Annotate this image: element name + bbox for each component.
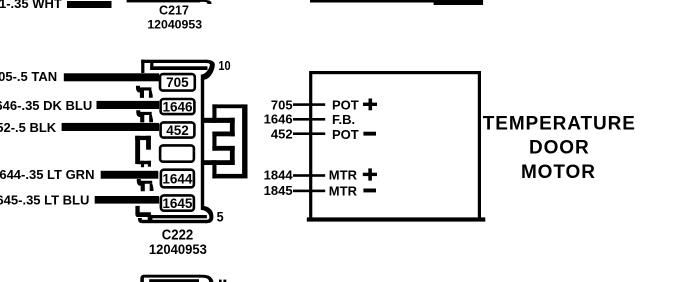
pin 10 label (bottom connector, partial) bbox=[219, 280, 226, 282]
wire 1645-.35 LT BLU (bar) bbox=[95, 196, 159, 204]
wire 452-.5 BLK (bar) bbox=[62, 123, 160, 131]
svg-text:1844: 1844 bbox=[264, 168, 294, 183]
terminal 1644 (cavity box) bbox=[161, 170, 194, 188]
terminal 705 (cavity box) bbox=[160, 74, 195, 91]
pin 705 stub line bbox=[293, 103, 325, 106]
pin 1844 plus sign bbox=[363, 168, 377, 180]
terminal 1646 (cavity box) bbox=[161, 99, 195, 114]
connector C222 left-edge notch (between 1646 and 452) bbox=[136, 110, 153, 122]
svg-text:F.B.: F.B. bbox=[332, 112, 355, 127]
connector C222 left-edge hook (below 1645, bottom left corner) bbox=[135, 206, 152, 221]
svg-text:12040953: 12040953 bbox=[149, 242, 207, 257]
pin 1646 stub line bbox=[293, 118, 325, 121]
pin 1845 stub line bbox=[293, 190, 325, 193]
temperature door motor box bottom edge (wide scan stroke) bbox=[307, 217, 486, 221]
svg-text:1644-.35 LT GRN: 1644-.35 LT GRN bbox=[0, 167, 94, 182]
svg-text:1-.35 WHT: 1-.35 WHT bbox=[0, 0, 62, 11]
svg-text:POT: POT bbox=[332, 127, 359, 142]
connector C222 outline: right edge bbox=[201, 79, 204, 206]
svg-text:1645: 1645 bbox=[162, 196, 193, 211]
svg-text:TEMPERATURE: TEMPERATURE bbox=[483, 113, 636, 134]
svg-text:C217: C217 bbox=[159, 3, 189, 17]
connector C222 left-edge notch (between 1644 and 1645) bbox=[137, 179, 154, 191]
pin 452 stub line bbox=[293, 132, 325, 135]
connector C222 outline: top edge bbox=[141, 60, 215, 80]
svg-text:5: 5 bbox=[217, 209, 224, 225]
svg-text:MTR: MTR bbox=[329, 168, 358, 183]
connector lock tab (mating latch right of C222) bbox=[204, 104, 248, 178]
svg-text:1845: 1845 bbox=[264, 183, 293, 198]
svg-text:1646: 1646 bbox=[162, 99, 193, 114]
svg-text:MTR: MTR bbox=[329, 183, 358, 198]
svg-text:452: 452 bbox=[271, 126, 293, 141]
svg-text:POT: POT bbox=[332, 97, 359, 112]
svg-text:705-.5 TAN: 705-.5 TAN bbox=[0, 69, 57, 84]
svg-text:1646-.35 DK BLU: 1646-.35 DK BLU bbox=[0, 98, 92, 113]
box fragment top right (bottom edge of cut-off box) bbox=[310, 0, 483, 5]
svg-text:705: 705 bbox=[166, 75, 189, 90]
pin 1845 minus sign bbox=[363, 189, 376, 193]
svg-text:452-.5 BLK: 452-.5 BLK bbox=[0, 120, 57, 135]
wire 705-.5 TAN (bar) bbox=[64, 73, 159, 81]
pin 452 minus sign bbox=[363, 132, 376, 136]
svg-text:C222: C222 bbox=[162, 228, 194, 244]
terminal 1645 (cavity box) bbox=[161, 195, 194, 210]
svg-text:452: 452 bbox=[166, 123, 189, 138]
connector fragment at bottom (next connector, partial) bbox=[140, 275, 213, 282]
connector C222 outline: bottom edge bbox=[138, 206, 213, 223]
svg-text:705: 705 bbox=[271, 97, 293, 112]
svg-text:1646: 1646 bbox=[264, 112, 293, 127]
svg-text:1645-.35 LT BLU: 1645-.35 LT BLU bbox=[0, 192, 89, 207]
pin 1844 stub line bbox=[293, 174, 325, 177]
svg-text:MOTOR: MOTOR bbox=[521, 162, 596, 183]
connector C222 left-edge wall (empty cavity, between 452 and 1644) bbox=[135, 136, 151, 167]
terminal 452 (cavity box) bbox=[161, 122, 195, 137]
svg-text:1644: 1644 bbox=[162, 171, 193, 186]
empty cavity box bbox=[160, 145, 194, 161]
connector C217 (partial bottom edge) bbox=[127, 0, 212, 4]
svg-text:10: 10 bbox=[218, 59, 230, 73]
wire 1644-.35 LT GRN (bar) bbox=[101, 171, 159, 179]
svg-text:DOOR: DOOR bbox=[529, 138, 590, 159]
connector C222 left-edge notch (between 705 and 1646) bbox=[136, 86, 153, 98]
svg-text:12040953: 12040953 bbox=[147, 18, 202, 32]
pin 705 plus sign bbox=[363, 99, 377, 111]
wire 1646-.35 DK BLU (bar) bbox=[97, 101, 160, 109]
temperature door motor box bbox=[311, 73, 480, 220]
wire 1-.35 WHT (bar) bbox=[67, 1, 112, 8]
